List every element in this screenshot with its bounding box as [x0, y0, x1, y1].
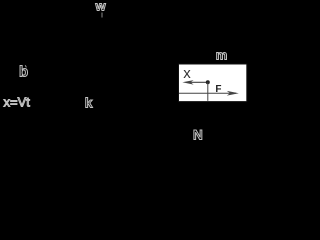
label b (left, halo remnant) [19, 63, 28, 80]
arrow x (pointing left from dot) [182, 80, 207, 85]
label N (below box, halo remnant) [193, 127, 203, 142]
label m (above box, halo remnant) [216, 47, 228, 62]
svg-text:b: b [19, 63, 28, 80]
svg-text:m: m [216, 47, 228, 62]
svg-text:k: k [85, 94, 93, 110]
svg-text:F: F [215, 84, 221, 95]
box (mass m) [179, 64, 247, 102]
svg-text:w: w [95, 0, 107, 13]
svg-text:N: N [193, 127, 203, 142]
wire: x axis line through box [179, 92, 236, 94]
arrow F (pointing right) [227, 91, 239, 96]
node: dot at mass centre [206, 80, 210, 84]
label x=vt (bottom left, halo remnant) [4, 94, 31, 109]
svg-text:x: x [183, 65, 191, 82]
label k (halo remnant) [85, 94, 93, 110]
wire: short tick below w [101, 13, 103, 18]
svg-text:x=Vt: x=Vt [4, 94, 31, 109]
label w (top, halo remnant) [95, 0, 107, 13]
wire: vertical line from dot to box bottom [207, 82, 209, 101]
